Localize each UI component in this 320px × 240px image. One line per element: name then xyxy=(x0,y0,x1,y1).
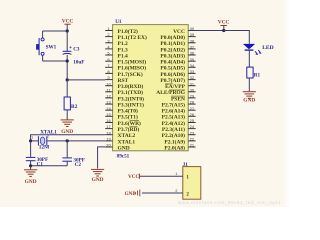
wire pin40 to VCC xyxy=(188,30,224,32)
node junction VCC/rail xyxy=(66,29,69,32)
wire switch bottom stem xyxy=(42,55,44,61)
svg-text:P0.1(AD1): P0.1(AD1) xyxy=(160,40,185,47)
svg-text:33: 33 xyxy=(190,69,195,74)
svg-text:P2.7(A15): P2.7(A15) xyxy=(162,102,186,109)
IC U1 89c51 body xyxy=(113,25,189,151)
svg-text:P3.4(T0): P3.4(T0) xyxy=(118,108,138,115)
capacitor C1 xyxy=(26,157,36,160)
svg-text:P0.6(AD6): P0.6(AD6) xyxy=(160,71,185,78)
capacitor C3 (polarized) xyxy=(63,45,73,54)
U1 left pin numbers xyxy=(106,26,111,148)
wire switch bottom to main xyxy=(43,60,68,62)
svg-text:P1.0(T2): P1.0(T2) xyxy=(118,28,138,35)
svg-text:P3.2(INT0): P3.2(INT0) xyxy=(118,95,145,102)
svg-text:P2.0(A8): P2.0(A8) xyxy=(164,144,185,151)
svg-text:12: 12 xyxy=(106,94,111,99)
wire J1 pin1 xyxy=(140,175,183,177)
wire XTAL2 pin18 to left node xyxy=(31,135,106,141)
svg-text:P1.5(MOSI): P1.5(MOSI) xyxy=(118,59,147,66)
svg-text:34: 34 xyxy=(190,63,195,68)
svg-text:LED: LED xyxy=(262,45,274,51)
svg-text:35: 35 xyxy=(190,57,195,62)
svg-text:RST: RST xyxy=(118,78,129,84)
svg-text:26: 26 xyxy=(190,112,195,117)
svg-text:P2.3(A11): P2.3(A11) xyxy=(162,126,185,133)
wire VCC rail to LED branch xyxy=(224,31,250,44)
wire crystal left terminal xyxy=(31,140,39,142)
svg-text:P3.3(INT1): P3.3(INT1) xyxy=(118,102,145,109)
svg-text:GND: GND xyxy=(118,145,130,151)
svg-text:36: 36 xyxy=(190,51,195,56)
svg-text:89c51: 89c51 xyxy=(117,153,130,159)
wire C1 top stem xyxy=(30,141,32,157)
node junction C2 tap xyxy=(66,139,69,142)
svg-text:27: 27 xyxy=(190,106,195,111)
wire R1 to ground xyxy=(248,78,250,91)
svg-text:GND: GND xyxy=(61,129,73,135)
svg-text:37: 37 xyxy=(190,45,195,50)
svg-text:P3.1(TXD): P3.1(TXD) xyxy=(118,89,144,96)
svg-text:C3: C3 xyxy=(73,46,80,52)
svg-text:R1: R1 xyxy=(254,73,261,79)
svg-text:PSEN: PSEN xyxy=(171,96,185,102)
svg-text:18: 18 xyxy=(106,130,111,135)
svg-text:10uF: 10uF xyxy=(73,60,84,66)
svg-text:P1.4: P1.4 xyxy=(118,53,128,59)
wire VCC stem to rail xyxy=(66,24,68,31)
ground (chip pin 20) xyxy=(91,168,104,170)
svg-text:21: 21 xyxy=(190,143,195,148)
wire C1-C2 ground link xyxy=(31,165,68,167)
svg-text:P2.1(A9): P2.1(A9) xyxy=(164,138,185,145)
svg-text:XTAL2: XTAL2 xyxy=(118,133,136,139)
U1 right pin numbers xyxy=(190,26,195,148)
svg-text:VCC: VCC xyxy=(62,19,74,25)
svg-text:25: 25 xyxy=(190,118,195,123)
svg-text:32: 32 xyxy=(190,75,195,80)
wire XTAL1 pin19 to crystal xyxy=(47,140,105,142)
svg-text:19: 19 xyxy=(106,137,111,142)
svg-text:+: + xyxy=(69,45,72,50)
capacitor C2 xyxy=(62,158,72,161)
svg-text:VCC: VCC xyxy=(218,20,230,26)
node junction VCC right xyxy=(222,29,225,32)
switch SW1 xyxy=(36,38,44,55)
svg-text:P1.7(SCK): P1.7(SCK) xyxy=(118,71,143,78)
wire VCC stem (right) xyxy=(223,26,225,31)
svg-text:EA/VPP: EA/VPP xyxy=(165,84,186,90)
svg-text:www.elecfans.com_89c51_led_min: www.elecfans.com_89c51_led_min_sys1 xyxy=(178,200,281,205)
svg-text:15: 15 xyxy=(106,112,111,117)
svg-text:22: 22 xyxy=(190,137,195,142)
svg-text:P1.3: P1.3 xyxy=(118,47,128,53)
svg-text:C2: C2 xyxy=(75,162,82,168)
svg-text:1: 1 xyxy=(175,172,177,176)
svg-text:GND: GND xyxy=(25,179,37,185)
svg-text:J1: J1 xyxy=(183,162,189,168)
svg-text:ALE/PROG: ALE/PROG xyxy=(156,90,185,96)
wire top rail to switch xyxy=(43,30,68,32)
svg-text:P1.1(T2 EX): P1.1(T2 EX) xyxy=(118,34,148,41)
svg-text:VCC: VCC xyxy=(128,174,139,180)
svg-text:30: 30 xyxy=(190,87,195,92)
svg-text:P0.2(AD2): P0.2(AD2) xyxy=(160,46,185,53)
svg-text:P0.7(AD7): P0.7(AD7) xyxy=(160,77,185,84)
node junction RST xyxy=(66,78,69,81)
svg-text:16: 16 xyxy=(106,118,111,123)
svg-text:20: 20 xyxy=(106,143,111,148)
U1 left pin labels xyxy=(118,28,148,151)
wire switch top stem xyxy=(42,31,44,38)
svg-text:P2.2(A10): P2.2(A10) xyxy=(162,132,186,139)
svg-text:VCC: VCC xyxy=(173,29,185,35)
wire stem to ground (C1/C2) xyxy=(30,166,32,170)
wire RST node to R2 xyxy=(66,80,68,97)
node junction crystal left / C1 xyxy=(29,139,32,142)
svg-text:2: 2 xyxy=(175,189,177,193)
svg-text:2: 2 xyxy=(47,135,49,139)
svg-text:GND: GND xyxy=(92,177,104,183)
wire RST to chip pin 9 xyxy=(67,79,105,81)
svg-text:39: 39 xyxy=(190,32,195,37)
connector J1 body xyxy=(183,167,201,200)
svg-text:P1.2: P1.2 xyxy=(118,41,128,47)
power port VCC (J1) xyxy=(128,174,139,181)
svg-text:23: 23 xyxy=(190,130,195,135)
ground (crystal caps) xyxy=(24,169,37,171)
wire GND pin20 xyxy=(98,147,106,169)
wire C1 bottom stem xyxy=(30,161,32,166)
crystal XTAL 12M xyxy=(38,136,46,145)
svg-text:P0.4(AD4): P0.4(AD4) xyxy=(160,59,185,66)
svg-text:1: 1 xyxy=(31,135,33,139)
svg-text:P2.5(A13): P2.5(A13) xyxy=(162,114,186,121)
LED D1 xyxy=(243,44,262,55)
svg-text:U1: U1 xyxy=(115,19,122,25)
resistor R1 xyxy=(247,67,253,78)
svg-text:P3.0(RXD): P3.0(RXD) xyxy=(118,83,144,90)
svg-text:38: 38 xyxy=(190,38,195,43)
svg-text:C1: C1 xyxy=(37,161,44,167)
svg-text:P3.5(T1): P3.5(T1) xyxy=(118,114,138,121)
svg-text:10: 10 xyxy=(106,81,111,86)
svg-text:13: 13 xyxy=(106,100,111,105)
svg-text:P1.6(MISO): P1.6(MISO) xyxy=(118,65,147,72)
wire J1 pin2 xyxy=(142,192,183,194)
svg-text:GND: GND xyxy=(243,98,255,104)
U1 left pin strokes xyxy=(105,31,112,148)
svg-text:28: 28 xyxy=(190,100,195,105)
wire C2 bottom stem xyxy=(66,161,68,166)
svg-text:P2.4(A12): P2.4(A12) xyxy=(162,120,186,127)
U1 right pin labels xyxy=(156,29,185,151)
wire main rail to C3 xyxy=(66,31,68,51)
wire R2 to ground xyxy=(66,110,68,120)
svg-text:29: 29 xyxy=(190,94,195,99)
ground (below R2) xyxy=(61,119,74,121)
svg-text:XTAL1: XTAL1 xyxy=(118,139,136,145)
wire C3 to RST node xyxy=(66,55,68,80)
wire C2 top stem xyxy=(66,141,68,158)
U1 right pin strokes xyxy=(188,31,195,148)
svg-text:31: 31 xyxy=(190,81,195,86)
svg-text:P0.0(AD0): P0.0(AD0) xyxy=(160,34,185,41)
resistor R2 xyxy=(64,97,70,110)
power port GND (J1) xyxy=(125,190,140,198)
svg-text:P2.6(A14): P2.6(A14) xyxy=(162,108,186,115)
svg-text:14: 14 xyxy=(106,106,111,111)
svg-text:24: 24 xyxy=(190,124,195,129)
svg-text:R2: R2 xyxy=(71,104,78,110)
node junction C1 ground xyxy=(29,164,32,167)
wire LED to R1 xyxy=(248,50,250,67)
svg-text:17: 17 xyxy=(106,124,111,129)
ground (LED) xyxy=(243,91,256,93)
svg-text:SW1: SW1 xyxy=(46,44,57,50)
svg-text:12M: 12M xyxy=(39,144,49,150)
svg-text:P0.3(AD3): P0.3(AD3) xyxy=(160,52,185,59)
svg-text:P0.5(AD5): P0.5(AD5) xyxy=(160,65,185,72)
node junction switch-bottom/main xyxy=(66,59,69,62)
